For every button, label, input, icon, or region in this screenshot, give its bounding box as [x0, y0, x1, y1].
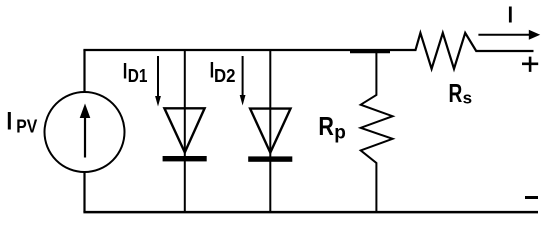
svg-text:D2: D2	[214, 65, 236, 86]
svg-text:I: I	[508, 2, 513, 28]
svg-text:I: I	[123, 58, 128, 83]
svg-text:D1: D1	[128, 65, 148, 86]
svg-text:s: s	[463, 89, 472, 108]
svg-text:R: R	[318, 111, 334, 141]
svg-text:I: I	[6, 107, 12, 135]
svg-text:PV: PV	[16, 116, 37, 136]
svg-text:R: R	[449, 78, 463, 108]
svg-text:p: p	[334, 122, 346, 143]
